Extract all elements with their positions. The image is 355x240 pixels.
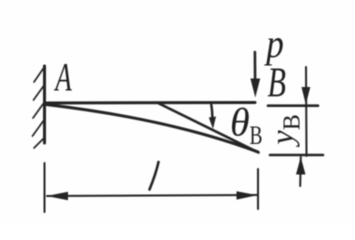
yB up arrowhead [296,157,306,175]
svg-text:B: B [268,58,286,105]
yB dimension lower tick [270,154,323,157]
label l length stroke [150,162,159,190]
svg-text:θ: θ [230,100,250,145]
wall hatch 3 [33,102,45,118]
svg-text:B: B [250,121,263,149]
theta angle arrowhead [209,117,216,130]
yB dimension vertical line upper [305,67,308,156]
wall hatch 5 [34,138,44,148]
wall hatch 1 [34,66,45,82]
yB dimension upper tick [268,104,318,107]
deflected beam curve A to B' [46,105,258,153]
l dimension left extension line [44,163,46,212]
wall hatch 4 [33,120,45,136]
load P arrow shaft [254,52,257,80]
tangent line at B' [159,104,259,153]
svg-text:A: A [54,56,72,99]
yB down arrowhead [302,87,311,105]
svg-text:yB: yB [264,114,306,147]
beam AB undeflected [45,101,255,105]
wall fixed support line [43,66,46,143]
l dimension right extension line [257,169,259,209]
theta angle arrow shaft [211,105,212,120]
load P arrowhead [250,79,260,98]
l dimension line [47,195,257,196]
wall hatch 2 [34,84,46,100]
yB dimension vertical line lower [299,157,302,186]
l dimension left arrowhead [47,192,69,200]
l dimension right arrowhead [237,191,258,199]
